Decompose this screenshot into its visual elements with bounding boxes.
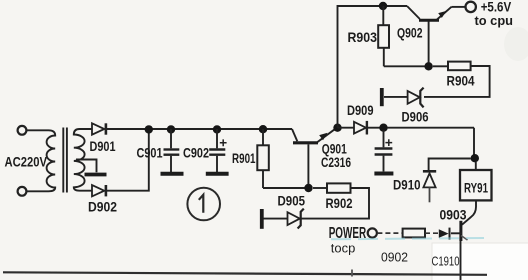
capacitor C902	[216, 129, 218, 148]
svg-text:D906: D906	[402, 108, 429, 124]
svg-text:0902: 0902	[381, 250, 408, 264]
terminal POWER	[368, 228, 377, 237]
ground C902	[206, 172, 229, 176]
svg-text:C1910: C1910	[432, 254, 460, 269]
relay RY91	[475, 162, 477, 170]
polarity + cap	[385, 139, 392, 146]
svg-text:C2316: C2316	[321, 154, 351, 170]
svg-text:Q902: Q902	[397, 25, 423, 41]
transformer T secondary winding	[74, 129, 92, 191]
junction	[213, 125, 221, 133]
wire to D910	[429, 159, 471, 171]
terminal AC top	[18, 126, 27, 135]
scan smudge top right	[504, 27, 528, 61]
junction	[379, 2, 387, 10]
transistor Q902	[407, 6, 420, 19]
junction emitter node	[333, 124, 341, 132]
wire rail to top	[338, 6, 408, 128]
resistor on power line	[403, 229, 425, 238]
wire	[338, 127, 355, 129]
wire D902 return	[107, 129, 149, 191]
transformer T primary winding	[27, 130, 56, 191]
svg-text:D901: D901	[90, 138, 116, 154]
svg-text:C902: C902	[183, 144, 209, 160]
wire	[452, 6, 466, 8]
junction base node	[304, 184, 312, 192]
junction	[424, 62, 432, 70]
diode D901	[92, 123, 104, 134]
arrow diode into Q903 base	[439, 229, 449, 238]
power wire dashed	[377, 232, 402, 234]
diode D910	[423, 170, 436, 173]
capacitor C901	[170, 129, 172, 148]
ground C901	[161, 172, 184, 176]
transistor Q901	[293, 141, 318, 144]
junction	[167, 125, 175, 133]
svg-text:D902: D902	[88, 199, 117, 215]
svg-text:R903: R903	[348, 29, 378, 45]
anode bar D906	[380, 88, 384, 106]
wire main bus	[107, 128, 292, 130]
polarity + C902	[220, 139, 227, 146]
node circle 1	[187, 188, 220, 221]
svg-text:tocp: tocp	[331, 240, 356, 255]
svg-text:R904: R904	[447, 73, 475, 89]
wire output line	[387, 128, 474, 155]
wire base net	[263, 187, 306, 189]
bottom border line	[3, 272, 487, 275]
svg-text:RY91: RY91	[464, 180, 488, 195]
svg-text:0903: 0903	[440, 207, 467, 223]
white patch bottom right	[432, 243, 528, 280]
wire	[384, 65, 425, 67]
filter capacitor at output node	[383, 130, 385, 147]
junction	[471, 154, 479, 162]
svg-text:D905: D905	[278, 193, 306, 209]
junction	[145, 125, 153, 133]
diode D902	[92, 185, 104, 196]
terminal +5.6V	[466, 2, 476, 12]
center tap wire	[76, 160, 97, 173]
resistor R902	[313, 187, 327, 189]
wire	[367, 127, 380, 129]
diode D905	[260, 209, 264, 229]
svg-text:D910: D910	[393, 177, 421, 193]
cyan underline artifact	[331, 238, 484, 239]
svg-text:R902: R902	[326, 195, 353, 211]
svg-text:AC220V: AC220V	[5, 154, 48, 170]
transformer core	[62, 128, 64, 193]
zener D906	[420, 88, 423, 108]
resistor R901	[262, 129, 264, 145]
terminal AC bottom	[18, 187, 27, 196]
resistor R903	[382, 6, 384, 25]
resistor R904	[433, 65, 448, 67]
svg-text:R901: R901	[232, 150, 256, 166]
junction	[259, 125, 267, 133]
diode D909	[354, 122, 366, 134]
center tap bar	[85, 173, 107, 177]
svg-text:C901: C901	[137, 144, 163, 160]
ground filter cap	[374, 172, 393, 176]
junction	[379, 124, 387, 132]
svg-text:D909: D909	[347, 102, 374, 118]
tick	[351, 270, 353, 277]
transistor Q903	[459, 221, 462, 241]
svg-text:to cpu: to cpu	[475, 13, 514, 28]
